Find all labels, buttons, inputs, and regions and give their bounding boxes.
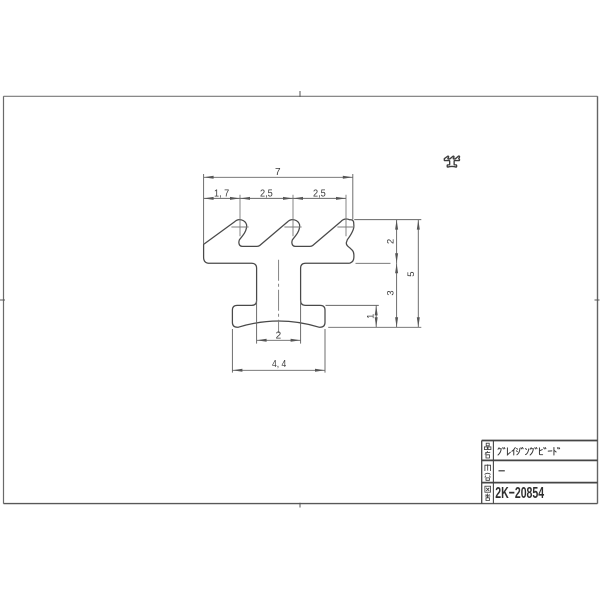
dakuten: [544, 448, 546, 449]
re: [507, 448, 510, 455]
extension line flange underside right (y=263.3): [356, 262, 391, 264]
long vowel: [548, 450, 552, 452]
dimension 5 (right outer) line: [417, 220, 420, 328]
dakuten: [521, 448, 523, 449]
ku: [530, 448, 533, 455]
extension line stem right (x=300.6): [300, 300, 302, 344]
svg-text:1: 1: [364, 314, 375, 319]
dimension 1 (foot height) text: [364, 314, 375, 319]
to: [554, 448, 556, 456]
dimension 3 (right) text: [385, 290, 396, 295]
svg-text:7: 7: [275, 167, 281, 178]
dimension 4,4 (foot width) text: [272, 359, 287, 370]
tooth tip crosshair tick 2: [284, 226, 301, 228]
hi: [539, 448, 542, 455]
frame center tick top: [299, 91, 301, 97]
dimension 2 (right upper) line: [395, 220, 398, 264]
dimension 5 (right outer) text: [405, 272, 416, 277]
svg-text:4, 4: 4, 4: [272, 359, 287, 370]
svg-text:2,5: 2,5: [260, 189, 273, 200]
dimension 2 (right upper) text: [384, 239, 395, 244]
dakuten: [557, 448, 559, 449]
dimension row 1,7 / 2,5 / 2,5 line: [204, 197, 346, 200]
dimension text 2,5 (first): [260, 189, 273, 200]
extension line tooth 2: [292, 195, 294, 236]
profile centerline: [278, 260, 280, 333]
n: [525, 449, 528, 455]
dimension 7 text: [275, 167, 281, 178]
dimension 2 (stem width) text: [276, 331, 282, 342]
extension line tooth 3: [345, 195, 347, 236]
dimension 4,4 (foot width) line: [232, 369, 325, 372]
glazing bead profile outline: [204, 219, 354, 327]
extension line tooth 1: [239, 195, 241, 236]
dimension text 1,7: [214, 189, 230, 200]
miniature profile thumbnail: [444, 156, 459, 167]
dimension 1 (foot height) line: [375, 305, 378, 327]
title block label 品名 (hinmei): [484, 443, 491, 458]
dimension text 2,5 (second): [313, 189, 326, 200]
title block drawing number 2K-20854: [495, 485, 544, 502]
title block part name katakana (glazing bead): [498, 448, 560, 456]
tooth tip crosshair tick 3: [337, 226, 354, 228]
frame center tick left: [0, 299, 5, 301]
dakuten: [503, 448, 505, 449]
svg-text:2,5: 2,5: [313, 189, 326, 200]
extension line foot right (x=325): [324, 329, 326, 373]
svg-text:2: 2: [384, 239, 395, 244]
svg-text:2K−20854: 2K−20854: [495, 485, 544, 502]
tooth tip crosshair tick 1: [231, 226, 248, 228]
svg-text:1, 7: 1, 7: [214, 189, 230, 200]
i: [512, 448, 515, 455]
shi: [516, 448, 519, 454]
extension line foot left (x=232.4): [231, 329, 233, 373]
extension line left (x=203.6): [203, 174, 205, 244]
drawing frame border: [4, 96, 598, 503]
dakuten: [535, 448, 537, 449]
dimension 2 (stem width) line: [257, 339, 301, 342]
title block outer and grid lines: [482, 441, 598, 504]
extension line right of 7 dim (x=352.8): [352, 174, 354, 219]
frame center tick bottom: [299, 503, 301, 508]
svg-text:5: 5: [405, 272, 416, 277]
svg-text:2: 2: [276, 331, 282, 342]
extension line foot top right (y=305.4): [326, 304, 379, 306]
title block label 内容 (naiyou): [485, 464, 491, 480]
ku: [498, 448, 501, 455]
dimension 7 line: [204, 176, 353, 179]
frame center tick right: [595, 299, 600, 301]
extension line bottom right (y=326): [328, 326, 421, 328]
extension line stem left (x=256.6): [256, 300, 258, 344]
title block content dash: [499, 470, 505, 472]
title block label 図番 (zuban): [485, 486, 491, 500]
extension line top right (y=219.6): [354, 219, 421, 221]
dimension 3 (right) line: [395, 263, 398, 327]
svg-text:3: 3: [385, 290, 396, 295]
